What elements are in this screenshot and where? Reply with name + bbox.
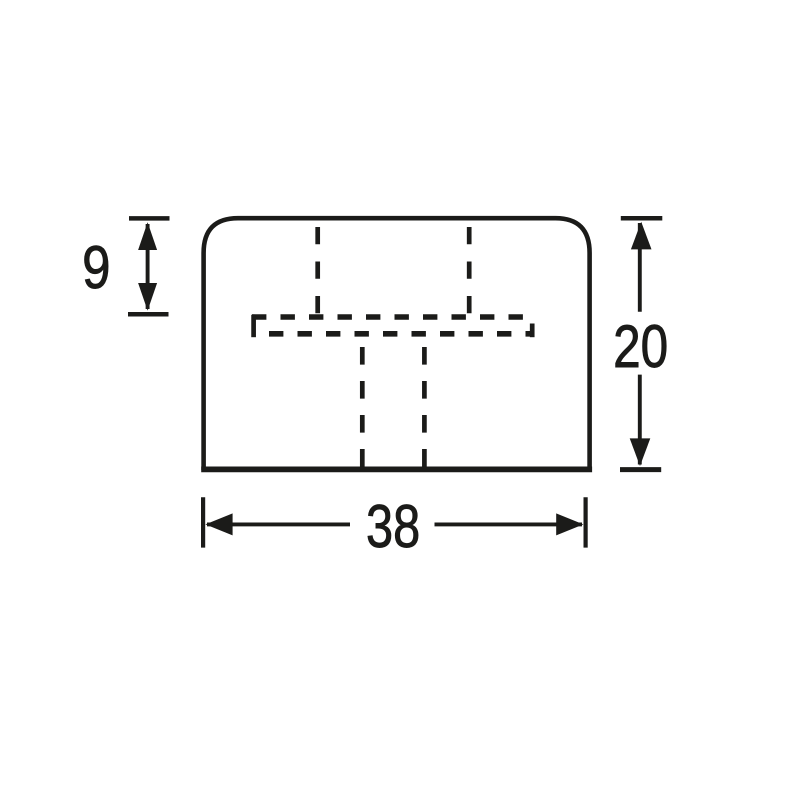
dim 38: line left segment: [207, 522, 350, 526]
dim 20: line lower segment: [638, 375, 642, 465]
dim 38: line right segment: [435, 522, 583, 526]
hidden line: flange left cap: [251, 315, 256, 337]
dim 38: left arrow: [205, 513, 232, 535]
hidden line: lower-left vertical: [360, 347, 365, 467]
dim 20: up arrow: [631, 222, 652, 250]
svg-text:9: 9: [82, 233, 110, 301]
hidden line: lower-right vertical: [422, 347, 427, 467]
dim 20: top tick: [621, 216, 663, 221]
body outline (side view of foot, rounded top corners): [204, 218, 590, 470]
dim 38: left tick: [201, 497, 205, 547]
hidden line: upper-right vertical: [467, 227, 472, 317]
svg-text:20: 20: [613, 312, 668, 380]
dim 20: line upper segment: [638, 223, 642, 312]
dim 38: right arrow: [556, 513, 583, 535]
dim 9: up arrow: [138, 222, 157, 250]
hidden line: upper-left vertical: [315, 227, 320, 317]
dim 20: bottom tick: [620, 467, 661, 472]
dim 20: down arrow: [630, 438, 651, 466]
dim 38: right tick: [583, 497, 587, 547]
dim 9: bottom tick: [128, 312, 169, 317]
svg-text:38: 38: [366, 492, 420, 560]
dim 9: down arrow: [138, 283, 157, 311]
dim 9: top tick: [129, 216, 170, 221]
hidden line: flange right cap: [530, 324, 535, 338]
hidden line: flange top: [252, 314, 526, 320]
hidden line: flange bottom: [269, 331, 534, 337]
body bottom edge: [201, 466, 592, 472]
dim 9: line: [146, 224, 150, 309]
